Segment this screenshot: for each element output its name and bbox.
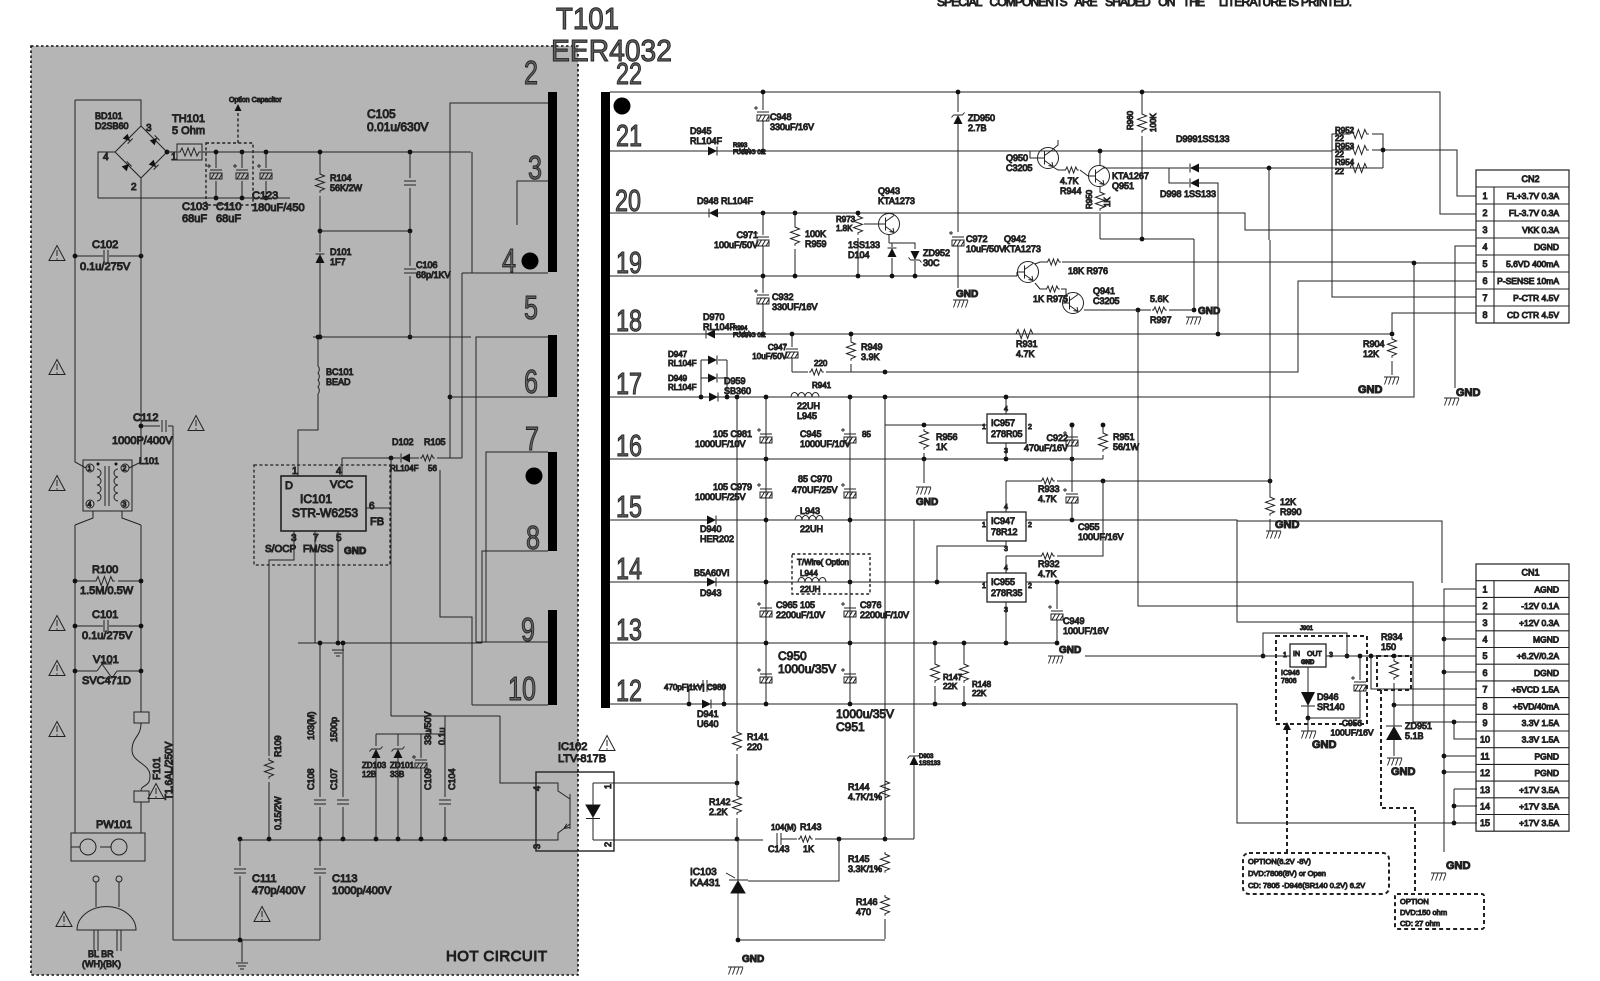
capacitor C945 symbol [841,428,856,443]
resistor R950 zigzag [1096,190,1105,211]
wire C101 left [75,625,103,627]
svg-text:C104: C104 [447,768,457,790]
junction V101 right [139,669,144,674]
wire C101 right [109,625,141,627]
junction R934 5VD [1392,703,1397,708]
svg-text:IC101: IC101 [300,492,332,506]
diode D940 symbol [707,516,716,525]
wire snubber rail2 [792,371,808,373]
svg-text:8: 8 [1482,310,1487,320]
svg-text:IC103KA431: IC103KA431 [690,867,720,889]
wire R100 right [118,580,141,582]
zener ZD101 symbol [392,747,405,759]
resistor R993 zigzag [737,148,752,154]
svg-text:C102: C102 [92,239,118,251]
wire C949 rail a [1056,582,1058,609]
capacitor C981 symbol [757,428,772,443]
capacitor C113 plates [314,869,326,873]
junction C980 right [722,702,727,707]
junction D959 right [725,395,730,400]
svg-text:2: 2 [1028,583,1032,590]
resistor R944 zigzag [1064,167,1079,173]
svg-text:12: 12 [616,673,642,708]
svg-text:GND: GND [1358,384,1383,396]
junction C948 bottom [761,149,766,154]
svg-text:IN: IN [1293,651,1300,658]
junction R956 pin16 [922,457,927,462]
regulator IC957 [987,414,1026,443]
svg-text:MGND: MGND [1533,635,1559,645]
wire ZD950 rail b [957,124,959,232]
junction IC957 pin3 [1004,457,1009,462]
wire D102 to R105 [410,457,419,459]
wire D999 in [1169,167,1189,169]
junction R956 top [922,423,927,428]
junction Q941 minus12 [1136,308,1141,313]
wire Q941 col [1084,309,1151,311]
capacitor C108 plates [314,800,326,804]
svg-text:GND: GND [956,289,978,300]
wire R block left [1332,134,1476,297]
junction bridge out [165,150,170,155]
wire R block out [1383,150,1476,196]
junction R148 top [962,641,967,646]
junction IC103 anode [736,938,741,943]
wire VCC riser [341,458,343,476]
resistor R941 zigzag [809,369,824,375]
wire IC957 pin3 [1005,443,1007,459]
svg-text:GND: GND [742,954,764,965]
svg-text:470UF/25V: 470UF/25V [792,485,838,495]
warning triangle IC102 [599,736,615,751]
wire D999 out [1199,167,1383,169]
wire ZD951 top [1393,705,1395,726]
plug prong BR [116,930,118,951]
L101 core bar right [108,466,110,506]
connector CN2 box [1476,170,1569,323]
wire IC957 input [885,424,987,426]
gnd symbol R904 [1384,377,1399,385]
capacitor C955 symbol [1063,488,1078,503]
capacitor C105 plates [404,181,416,185]
capacitor C965 symbol [757,602,772,617]
warning triangle plug [56,912,72,927]
junction C107 top [341,641,346,646]
capacitor C950 symbol [757,668,772,683]
svg-text:1: 1 [1482,191,1487,201]
wire C971 rail a [762,213,764,235]
L101 pin3 circle [121,500,129,508]
resistor R100 zigzag [94,577,115,586]
svg-text:5: 5 [524,289,538,326]
wire R949 top [850,334,852,340]
svg-text:9: 9 [1482,718,1487,728]
svg-text:7: 7 [525,420,539,457]
wire bridge bottom [140,178,142,256]
wire P-SENSE [885,281,1476,372]
wire R950 node line [1100,238,1194,240]
transformer T101 primary winding bar pins 5-6 [548,335,557,397]
junction Q951 collector [1098,149,1103,154]
pin 4 polarity dot [522,253,539,270]
bridge rectifier BD101 [115,126,167,178]
warning triangle L101 [49,476,65,491]
wire 17V bracket [1453,789,1455,823]
svg-text:DGND: DGND [1534,668,1559,678]
junction R141 R142 [735,781,740,786]
svg-text:GND: GND [1198,306,1220,317]
wire earth drop [241,940,243,962]
svg-text:GND: GND [344,546,366,557]
svg-text:IC955: IC955 [991,577,1015,587]
wire hot bottom rail [240,839,536,841]
junction C102 right [139,254,144,259]
svg-text:1: 1 [982,424,986,431]
wire pin15 line [610,519,987,521]
resistor R976 zigzag [1046,259,1061,265]
svg-text:VCC: VCC [330,479,353,491]
wire C108 top [319,643,321,797]
wire R block left join2 [1332,149,1348,151]
wire C106 top [409,231,411,266]
svg-text:D102: D102 [392,437,414,447]
junction R959 bottom [793,274,798,279]
earth IC101 gnd [332,650,344,656]
wire C932 rail a [762,276,764,293]
svg-text:100KR959: 100KR959 [805,229,827,249]
junction R951 top [1101,423,1106,428]
wire IC957 pin4 [1005,397,1007,414]
junction C971 bottom [761,274,766,279]
gnd symbol IC103 [728,967,743,975]
junction C971 top [761,211,766,216]
gnd symbol CN2 [1444,398,1459,406]
svg-text:S/OCP: S/OCP [265,544,296,555]
svg-text:18K R976: 18K R976 [1068,266,1108,276]
junction C111 gnd [238,938,243,943]
wire TH101 out [202,151,471,153]
junction D104 pin19 [890,274,895,279]
resistor R933 zigzag [1040,478,1055,484]
wire 5VCD feed [1371,656,1477,689]
junction R934 top [1392,654,1397,659]
junction R148 bottom [962,702,967,707]
junction rail766 pin15 [764,518,769,523]
regulator IC946 7806 body [1290,644,1326,667]
wire R block right join2 [1372,149,1383,151]
connector CN1 rows [1476,581,1569,815]
wire fuse to PW101 [140,802,142,833]
junction C109 rail [419,837,424,842]
junction ZD103 rail [374,837,379,842]
svg-text:18: 18 [616,303,642,338]
svg-text:6: 6 [1482,276,1487,286]
wire rail 737 drop [736,397,738,730]
svg-text:5: 5 [1482,259,1487,269]
wire gnd drop 1194 [1193,239,1195,310]
junction C980 left [687,702,692,707]
resistor R990 zigzag [1266,495,1275,516]
resistor R934 zigzag [1390,659,1399,680]
wire R block left join3 [1332,167,1348,169]
svg-text:R950: R950 [1085,189,1094,209]
junction GND rail [336,641,341,646]
diode D903 symbol [908,754,921,766]
svg-text:4: 4 [336,466,342,477]
wire R block left join [1331,134,1333,168]
wire bridge left vertex [98,152,115,198]
optocoupler IC102 phototransistor [536,783,570,840]
junction rail737 pin17 [735,395,740,400]
svg-text:1K: 1K [803,844,814,854]
svg-text:4: 4 [103,152,109,163]
diode D943 symbol [707,578,716,587]
wire C980 arch right [708,686,724,704]
svg-text:C101: C101 [92,609,118,621]
svg-text:L101: L101 [139,456,159,466]
wire Q951 col [1099,186,1101,192]
wire bridge bottom rail [98,197,290,199]
svg-text:+5VD/40mA: +5VD/40mA [1513,701,1559,711]
resistor R904 zigzag [1388,337,1397,358]
svg-text:4: 4 [532,786,542,791]
wire to pin 5 [476,337,548,642]
svg-text:17: 17 [616,366,642,401]
earth hot [236,963,248,969]
junction IC957 pin4 [1004,395,1009,400]
junction rail850 pin15 [848,518,853,523]
capacitor C951 symbol [841,668,856,683]
wire ZD952 bottom [914,261,916,276]
svg-text:3: 3 [1004,546,1008,553]
svg-text:GND: GND [1312,739,1337,751]
svg-text:13: 13 [1480,785,1490,795]
wire CN1 gnd stub junction CN1 PGND2 [1444,771,1476,773]
svg-text:278R05: 278R05 [991,429,1023,439]
wire pin12 line [610,704,1477,823]
wire R973 bottom [857,238,859,276]
wire R932 out [1057,481,1103,556]
junction C101 left [73,624,78,629]
svg-text:C10368uF: C10368uF [182,201,208,225]
junction R block out [1381,148,1386,153]
wire R148 rail b [963,686,965,704]
fuse F101 squiggle [132,723,150,791]
wire VCC lead [342,457,400,459]
wire IC947 output [1026,520,1476,622]
junction R147 bottom [933,702,938,707]
wire IC955 output [1026,582,1413,722]
wire ZD101 top [397,734,399,746]
svg-text:8: 8 [526,519,540,556]
capacitor C104 plates [439,800,451,804]
wire D998 out [1199,183,1218,334]
svg-text:C11068uF: C11068uF [216,201,241,225]
gnd symbol R990 [1266,531,1281,539]
junction R990 top [1268,479,1273,484]
svg-text:AGND: AGND [1534,584,1559,594]
wire left rail upper [74,100,76,455]
wire R934 to CN1 8 [1394,704,1476,706]
diode D102 symbol [401,454,410,463]
gnd symbol R997 [1186,317,1201,325]
svg-text:CN2: CN2 [1521,174,1539,184]
L101 polarity dots [97,463,100,466]
svg-text:(WH)(BK): (WH)(BK) [82,959,121,969]
junction R142 bottom [735,837,740,842]
junction 3.3V [1452,720,1457,725]
resistor R959 zigzag [791,225,800,246]
warning triangle C101 [49,616,65,631]
wire 3.3V bracket [1454,722,1477,739]
svg-text:5: 5 [1482,651,1487,661]
junction R959 top [793,211,798,216]
svg-text:8: 8 [1482,701,1487,711]
junction C932 bottom [761,332,766,337]
svg-text:FL-3.7V 0.3A: FL-3.7V 0.3A [1509,208,1559,218]
wire to pin 3 [517,181,548,225]
resistor R952 zigzag [1348,130,1369,139]
wire R956 bottom [923,453,925,459]
svg-text:C965 105: C965 105 [776,600,815,610]
wire CN1 gnd stub junction CN1 MGND [1444,638,1476,640]
transistor Q942 symbol [1018,262,1039,283]
wire ZD951 bottom [1393,740,1395,756]
junction C107 rail [341,837,346,842]
junction rail766 pin13 [764,641,769,646]
wire IC947 pin3 [937,541,1006,582]
svg-text:+17V 3.5A: +17V 3.5A [1519,802,1559,812]
shunt regulator IC103 KA431 [726,839,748,940]
wire pin4 feed [471,152,473,273]
svg-text:D998 1SS133: D998 1SS133 [1160,189,1216,199]
wire C104 top [444,734,446,797]
wire R933 out [1057,480,1270,482]
svg-text:R105: R105 [424,437,446,447]
transistor Q950 symbol [1038,148,1059,169]
svg-text:P-CTR 4.5V: P-CTR 4.5V [1513,293,1559,303]
L101 core bar left [104,466,106,506]
wire ZD952 top [892,243,915,249]
svg-text:RL104F: RL104F [390,464,419,473]
option capacitor arrow [237,110,239,143]
capacitor C111 plates [234,869,246,873]
junction R933 out [1101,479,1106,484]
wire pin10 link [440,470,472,705]
wire C112 return [172,426,174,940]
wire pin14 line [610,581,987,583]
wire R934 bottom [1393,683,1395,705]
PW101 terminal left [80,839,96,855]
svg-text:BC101BEAD: BC101BEAD [326,367,354,387]
svg-text:C945: C945 [800,429,822,439]
wire D947 jumper [701,359,708,361]
capacitor C110 bottom junction [240,196,245,201]
junction R143 node [837,837,842,842]
transformer T101 primary winding bar pins 2-4 [548,92,557,272]
svg-text:16: 16 [616,428,642,463]
svg-text:FM/SS: FM/SS [303,544,334,555]
junction R941 out [883,370,888,375]
junction D946 bottom [1306,716,1311,721]
op-amp U1 IC101 body [281,476,366,531]
svg-text:1: 1 [88,466,92,473]
junction BC101 top [316,335,321,340]
inductor L943 symbol [795,516,823,521]
wire D903 rail [913,520,915,753]
wire C955 rail [1071,459,1073,492]
svg-text:IC947: IC947 [991,516,1015,526]
plug prong BL 2 [97,930,99,951]
svg-text:7: 7 [313,533,319,544]
svg-text:P-SENSE 10mA: P-SENSE 10mA [1497,276,1559,286]
svg-text:10: 10 [1480,735,1490,745]
svg-text:LITERATURE IS PRINTED.: LITERATURE IS PRINTED. [1219,0,1352,9]
transformer T101 secondary winding bar pins 12-22 [601,92,610,708]
diode D941 symbol [702,700,711,709]
svg-text:1: 1 [982,583,986,590]
wire R976 out [1062,261,1414,263]
wire IC947 ext [1237,521,1442,583]
line filter L101 box [83,460,132,511]
wire IC947 pin4 [1005,481,1007,512]
svg-text:PGND: PGND [1534,768,1559,778]
wire R990 feed2 [1269,240,1271,481]
wire D947 right jumper [718,359,727,361]
svg-text:R1422.2K: R1422.2K [709,797,731,817]
junction ZD950 top [956,90,961,95]
capacitor C956 symbol [1351,676,1366,691]
wire CN1 gnd stub junction CN1 DGND [1444,671,1476,673]
junction R973 top [856,211,861,216]
wire pin19 to Q942 [1016,272,1018,276]
wire D903 to opto line [885,838,914,840]
junction C955 bottom [1070,518,1075,523]
wire Q951 collector stub [1099,151,1101,166]
svg-text:+5VCD 1.5A: +5VCD 1.5A [1512,685,1560,695]
svg-text:R997: R997 [1150,315,1172,325]
wire bottom rail [738,939,885,941]
svg-text:3: 3 [1482,225,1487,235]
svg-text:85: 85 [862,430,871,439]
diode D999 symbol [1190,164,1199,173]
svg-text:1: 1 [171,152,177,163]
wire D947 stack right [726,360,728,397]
wire D101 bottom [319,263,321,337]
wire right rail upper [140,178,142,455]
junction rail850 pin12 [848,702,853,707]
wire C947 bottom [791,358,793,372]
svg-text:2: 2 [1028,522,1032,529]
fuse F101 clip bottom [134,791,149,802]
wire reg input [1085,655,1290,657]
svg-text:3: 3 [532,844,542,849]
junction C922 top [1070,423,1075,428]
wire C111 top [239,839,241,866]
capacitor C123 [265,152,267,198]
option capacitor dashed box [206,143,253,205]
wire Q942 col [1035,262,1046,264]
wire R block right [1372,134,1383,168]
wire BC101 top [317,337,319,366]
resistor R994 zigzag [737,331,752,337]
svg-text:HOT CIRCUIT: HOT CIRCUIT [446,948,547,965]
option note box 1 [1243,853,1389,894]
capacitor C971 symbol [754,231,769,246]
wire R141 rail b [736,754,738,783]
svg-text:2: 2 [1028,424,1032,431]
wire R959 top [794,213,796,225]
